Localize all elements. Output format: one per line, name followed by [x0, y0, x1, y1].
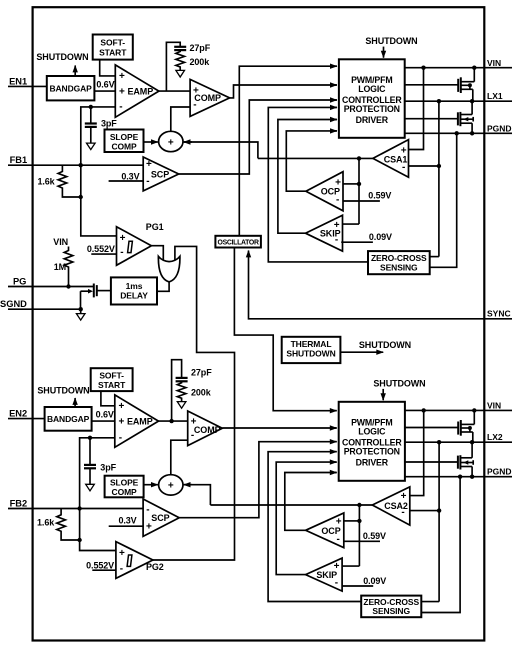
svg-text:CSA2: CSA2 — [384, 501, 408, 511]
svg-text:0.59V: 0.59V — [363, 531, 386, 541]
svg-text:0.6V: 0.6V — [96, 409, 114, 419]
wire FB1 to SCP1 + input — [8, 164, 143, 166]
resistor 1M — [64, 247, 73, 287]
wire oscillator output to PWM2 input 1 — [234, 248, 336, 411]
wire CSA1 - input to LX1 — [409, 165, 439, 167]
wire CSA2 output feedback into summing node — [184, 485, 211, 505]
wire 0.59V stub to OCP1 - input — [343, 200, 380, 202]
svg-text:THERMAL: THERMAL — [291, 339, 332, 349]
svg-text:0.3V: 0.3V — [121, 171, 139, 181]
svg-text:DRIVER: DRIVER — [356, 458, 389, 468]
ground arrow below 200k (ch2) — [177, 402, 186, 409]
wire 0.552V stub to PG1 - input — [91, 253, 116, 255]
wire shutdown arrow up from BANDGAP1 — [74, 66, 76, 77]
svg-text:FB2: FB2 — [10, 499, 28, 509]
block SOFT-START1 — [93, 35, 133, 60]
svg-text:-: - — [120, 564, 123, 575]
resistor 1.6k (ch2) — [57, 509, 80, 541]
svg-text:0.6V: 0.6V — [96, 79, 114, 89]
transistor upper MOSFET ch1 — [457, 79, 459, 92]
wire CSA2 output to left — [210, 504, 372, 506]
wire SLOPE COMP1 to summing node — [144, 141, 158, 143]
svg-text:COMP: COMP — [194, 425, 221, 435]
svg-text:PG1: PG1 — [146, 222, 164, 232]
svg-text:CSA1: CSA1 — [384, 155, 408, 165]
svg-text:27pF: 27pF — [191, 367, 212, 377]
svg-text:200k: 200k — [190, 57, 211, 67]
capacitor 27pF (ch2) — [176, 377, 188, 379]
svg-text:-: - — [120, 247, 123, 258]
svg-text:SENSING: SENSING — [380, 262, 418, 272]
svg-text:COMP: COMP — [111, 141, 137, 151]
node FB1 junction — [79, 163, 83, 167]
capacitor 27pF (ch1) — [174, 46, 186, 48]
wire 0.09V stub to SKIP1 - input — [341, 241, 373, 243]
block ZERO-CROSS SENSING (ch1) — [368, 251, 430, 274]
svg-text:PGND: PGND — [487, 467, 512, 477]
wire SCP1 output to PWM1 input 3 — [179, 100, 337, 174]
svg-text:-: - — [119, 102, 122, 113]
ground arrow below 3pF (ch1) — [87, 143, 96, 150]
svg-text:BANDGAP: BANDGAP — [49, 84, 92, 94]
wire 0.09V stub to SKIP2 - input — [342, 585, 373, 587]
svg-text:SLOPE: SLOPE — [110, 132, 139, 142]
wire LX1 rail — [405, 100, 512, 102]
transistor lower MOSFET ch1 — [457, 112, 459, 125]
svg-text:3pF: 3pF — [100, 462, 116, 472]
transistor PG open-drain MOSFET — [96, 285, 98, 296]
wire PG to open-drain MOSFET — [8, 286, 94, 288]
wire oscillator output to PWM1 input 1 — [239, 66, 336, 236]
svg-text:EAMP: EAMP — [127, 416, 153, 426]
svg-text:+: + — [168, 137, 174, 148]
svg-text:0.3V: 0.3V — [118, 515, 136, 525]
wire PWM2 gate drive upper — [405, 427, 458, 429]
ground arrow below 3pF (ch2) — [86, 484, 95, 491]
wire CSA1 output to left — [258, 157, 373, 159]
svg-text:+: + — [168, 481, 174, 492]
wire COMP1 output to PWM1 input 2 — [230, 85, 337, 98]
svg-text:-: - — [146, 176, 149, 187]
svg-text:SENSING: SENSING — [372, 606, 410, 616]
comparator COMP1 — [190, 79, 230, 116]
svg-text:27pF: 27pF — [190, 43, 211, 53]
svg-text:FB1: FB1 — [10, 155, 28, 165]
svg-text:SOFT-: SOFT- — [100, 38, 125, 48]
svg-text:-: - — [119, 433, 122, 444]
wire SGND — [8, 308, 81, 310]
wire thermal shutdown arrow — [340, 351, 383, 353]
resistor 200k (ch2) — [177, 381, 186, 401]
wire FB2 to SCP2 - input — [8, 508, 143, 510]
capacitor 3pF (ch1) — [89, 105, 93, 109]
svg-text:SOFT-: SOFT- — [99, 371, 124, 381]
svg-text:SCP: SCP — [151, 169, 169, 179]
wire VIN2 to CSA2 + input — [410, 410, 424, 495]
svg-text:OSCILLATOR: OSCILLATOR — [218, 239, 259, 246]
wire ZC2 to LX2 — [421, 601, 439, 603]
wire VIN2 rail — [405, 409, 512, 411]
svg-text:200k: 200k — [191, 388, 212, 398]
block OSCILLATOR — [215, 236, 261, 248]
wire SOFT-START1 to EAMP1 top input — [100, 60, 116, 76]
wire LX1 down to zero-cross — [438, 101, 440, 256]
block ZERO-CROSS SENSING (ch2) — [361, 596, 421, 618]
wire EAMP2 - input from FB2 — [80, 438, 116, 551]
wire EN1 to BANDGAP1 — [8, 85, 47, 87]
wire 0.3V stub to SCP1 - input — [109, 180, 144, 182]
comparator OCP1 — [306, 172, 343, 211]
op-amp EAMP1 — [115, 65, 159, 117]
svg-text:BANDGAP: BANDGAP — [47, 414, 90, 424]
svg-text:SKIP: SKIP — [320, 228, 341, 238]
comparator CSA2 — [372, 487, 410, 525]
transistor lower MOSFET ch2 — [457, 456, 459, 469]
wire ZC1 to PGND1 — [430, 133, 457, 267]
capacitor 3pF (ch2) — [88, 436, 92, 440]
resistor 1.6k (ch1) — [58, 165, 81, 197]
wire compensation riser (ch1) — [166, 42, 180, 91]
wire 0.3V stub to SCP2 + input — [109, 525, 143, 527]
comparator COMP2 — [188, 411, 223, 446]
block SLOPE COMP (ch2) — [105, 476, 144, 498]
block THERMAL SHUTDOWN — [282, 337, 341, 363]
wire PWM2 input 4 from zero-cross sensing ch2 — [268, 452, 361, 602]
wire SLOPE COMP2 to summing node — [144, 484, 158, 486]
wire OCP1 + input — [343, 183, 359, 185]
op-amp EAMP2 — [115, 395, 159, 447]
wire OCP2 + input — [344, 520, 360, 522]
svg-text:SKIP: SKIP — [316, 570, 337, 580]
svg-text:OCP: OCP — [321, 526, 340, 536]
svg-text:EN1: EN1 — [9, 76, 27, 86]
svg-text:+: + — [119, 401, 125, 412]
svg-text:1ms: 1ms — [126, 281, 143, 291]
wire PGND1 rail — [405, 132, 512, 134]
wire compensation riser (ch2) — [172, 360, 182, 421]
svg-text:1.6k: 1.6k — [37, 176, 55, 186]
svg-text:+: + — [119, 71, 125, 82]
wire PWM1 gate drive upper — [405, 84, 459, 86]
svg-text:SHUTDOWN: SHUTDOWN — [286, 349, 335, 359]
wire EAMP1 output to COMP1 + input — [159, 90, 190, 92]
wire 0.552V stub to PG2 - input — [92, 569, 116, 571]
svg-text:SHUTDOWN: SHUTDOWN — [365, 36, 417, 46]
svg-text:0.59V: 0.59V — [368, 190, 391, 200]
wire SKIP1 + input — [343, 223, 360, 225]
comparator SCP1 — [143, 157, 179, 191]
svg-text:PROTECTION: PROTECTION — [344, 447, 400, 457]
summing node (ch1) — [159, 131, 183, 151]
svg-text:+: + — [119, 87, 125, 98]
wire CSA1 output down to OCP1/SKIP1 + inputs — [358, 158, 360, 224]
svg-text:+: + — [119, 548, 125, 559]
wire CSA2 - input to LX2 — [410, 510, 439, 512]
wire ZC1 to LX1 — [430, 256, 439, 258]
svg-text:0.09V: 0.09V — [363, 576, 386, 586]
wire EN2 to BANDGAP2 — [8, 418, 45, 420]
wire SKIP2 + input — [342, 565, 359, 567]
wire VIN1 to CSA1 + input — [409, 68, 424, 150]
hysteresis glyph inside PG1 — [128, 241, 133, 252]
node 1.6k bottom junction — [79, 195, 83, 199]
svg-text:PGND: PGND — [487, 123, 512, 133]
wire LX2 down to zero-cross ch2 — [438, 442, 440, 601]
svg-text:3pF: 3pF — [101, 119, 117, 129]
wire shutdown arrow into PWM2 — [382, 389, 384, 400]
block SOFT-START2 — [91, 368, 133, 391]
wire PG1 output to OR gate — [151, 246, 163, 261]
comparator PG1 — [117, 227, 152, 266]
wire COMP2 output to PWM2 input 2 — [222, 427, 336, 429]
svg-text:PG2: PG2 — [146, 562, 164, 572]
comparator OCP2 — [306, 513, 344, 548]
comparator CSA1 — [373, 140, 409, 178]
svg-text:1M: 1M — [54, 262, 66, 272]
svg-text:LOGIC: LOGIC — [358, 84, 386, 94]
wire BANDGAP2 to EAMP2 + input, 0.6V — [92, 420, 115, 422]
svg-text:LOGIC: LOGIC — [358, 427, 386, 437]
wire SCP2 output to PWM2 input 3 — [179, 442, 336, 518]
wire SYNC to oscillator — [249, 253, 513, 319]
wire summing node to COMP2 - input — [171, 440, 188, 475]
svg-text:COMP: COMP — [194, 93, 221, 103]
node LX1 junction dots — [437, 99, 441, 103]
wire ZC2 to PGND2 — [421, 477, 460, 613]
wire shutdown arrow into PWM1 — [383, 47, 385, 58]
wire PWM2 input 5 from SKIP2 — [276, 462, 336, 574]
block SLOPE COMP (ch1) — [105, 130, 144, 153]
node 1.6k ch2 bottom junction — [77, 538, 81, 542]
wire PWM1 gate drive lower — [405, 118, 458, 120]
svg-text:EAMP: EAMP — [128, 86, 154, 96]
hysteresis glyph inside PG2 — [127, 555, 132, 566]
comparator PG2 — [116, 542, 153, 579]
svg-text:+: + — [146, 522, 152, 533]
wire 3pF to ground arrow — [90, 127, 92, 143]
block PWM1 controller — [339, 59, 405, 138]
svg-text:DRIVER: DRIVER — [356, 115, 389, 125]
block BANDGAP2 — [45, 407, 92, 431]
wire summing node to COMP1 - input — [171, 107, 190, 131]
svg-text:SYNC: SYNC — [487, 308, 511, 318]
node PG / 1M junction — [66, 284, 70, 288]
wire 3pF2 to ground arrow — [89, 468, 91, 484]
svg-text:PROTECTION: PROTECTION — [344, 104, 400, 114]
comparator SCP2 — [143, 499, 179, 536]
svg-text:1.6k: 1.6k — [37, 518, 55, 528]
svg-text:VIN: VIN — [487, 58, 501, 68]
wire PG2 signal to OR gate right input — [153, 246, 235, 560]
svg-text:0.552V: 0.552V — [87, 244, 115, 254]
svg-text:SHUTDOWN: SHUTDOWN — [36, 52, 88, 62]
svg-text:PG: PG — [13, 277, 26, 287]
wire 1ms delay to PG MOSFET gate — [97, 290, 111, 292]
OR gate (points down) — [158, 256, 180, 282]
wire LX2 rail — [405, 441, 512, 443]
svg-text:DELAY: DELAY — [120, 291, 148, 301]
block PWM2 controller — [339, 402, 405, 481]
node VIN2 junction dots — [422, 408, 426, 412]
wire OR gate output to 1ms delay — [157, 281, 169, 291]
svg-text:SGND: SGND — [0, 299, 27, 309]
svg-text:COMP: COMP — [112, 487, 138, 497]
block 1ms DELAY — [111, 277, 157, 304]
summing node (ch2) — [159, 475, 183, 495]
resistor 200k (ch1) — [176, 50, 185, 70]
node PGND2 junction dots — [458, 475, 462, 479]
comparator SKIP2 — [306, 558, 343, 591]
svg-text:SHUTDOWN: SHUTDOWN — [373, 378, 425, 388]
wire EAMP2 output to COMP2 + input — [159, 420, 188, 422]
node LX2 junction dots — [437, 440, 441, 444]
block BANDGAP1 — [47, 76, 95, 100]
svg-text:+: + — [119, 417, 125, 428]
wire shutdown arrow up from BANDGAP2 — [74, 398, 76, 407]
wire SOFT-START2 to EAMP2 top input — [101, 391, 115, 406]
svg-text:0.09V: 0.09V — [369, 232, 392, 242]
svg-text:0.552V: 0.552V — [86, 560, 114, 570]
svg-text:-: - — [146, 505, 149, 516]
wire CSA2 output down to OCP2/SKIP2 + inputs — [358, 505, 360, 566]
svg-text:OCP: OCP — [321, 187, 340, 197]
svg-text:LX1: LX1 — [487, 91, 503, 101]
svg-text:+: + — [120, 233, 126, 244]
wire BANDGAP1 to EAMP1 + input, 0.6V — [94, 90, 115, 92]
ground arrow below 200k (ch1) — [176, 70, 185, 77]
svg-text:SCP: SCP — [151, 513, 169, 523]
wire CSA1 output feedback into summing node — [184, 142, 258, 158]
svg-text:VIN: VIN — [53, 237, 68, 247]
wire PWM2 gate drive lower — [405, 461, 458, 463]
node PGND1 junction dots — [455, 131, 459, 135]
wire PWM2 input 6 from OCP2 — [285, 473, 337, 531]
wire VIN1 rail — [405, 67, 512, 69]
node FB2 junction — [77, 506, 81, 510]
svg-text:VIN: VIN — [487, 400, 501, 410]
wire PGND2 rail — [405, 476, 512, 478]
wire PWM1 input 6 from OCP1 — [286, 131, 337, 191]
wire PWM1 input 4 from zero-cross sensing — [268, 107, 368, 262]
svg-text:START: START — [98, 380, 126, 390]
node VIN1 junction dots — [421, 66, 425, 70]
wire 0.59V stub to OCP2 - input — [344, 540, 380, 542]
wire EAMP1 - input from FB1 — [81, 107, 117, 236]
comparator SKIP1 — [306, 215, 343, 251]
svg-text:EN2: EN2 — [9, 409, 27, 419]
svg-text:SHUTDOWN: SHUTDOWN — [37, 385, 89, 395]
wire PWM1 input 5 from SKIP1 — [278, 120, 337, 234]
transistor upper MOSFET ch2 — [457, 422, 459, 435]
svg-text:START: START — [99, 47, 127, 57]
node SGND junction — [79, 307, 83, 311]
ground symbol at SGND — [80, 309, 82, 313]
svg-text:LX2: LX2 — [487, 432, 503, 442]
svg-text:SHUTDOWN: SHUTDOWN — [359, 340, 411, 350]
